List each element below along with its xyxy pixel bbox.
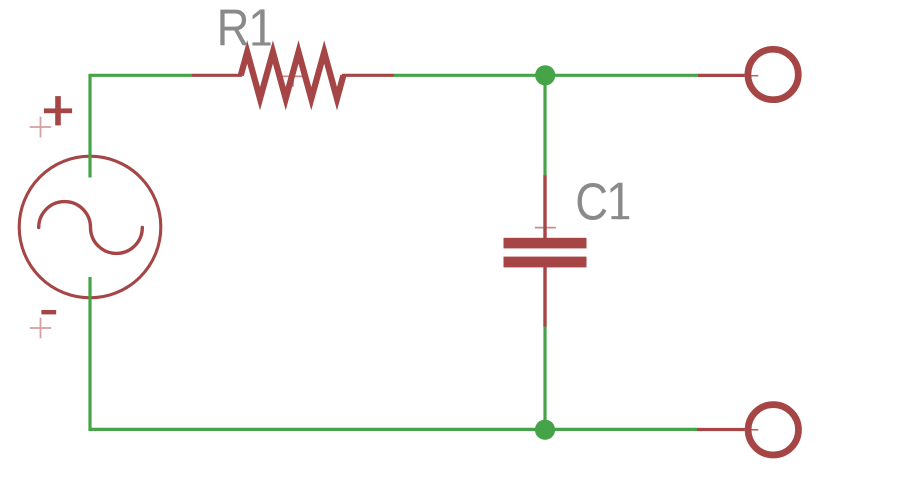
wire: bottom rail from source to terminal <box>90 277 697 429</box>
wire: top-left from source to corner <box>90 75 192 177</box>
svg-text:C: C <box>575 172 608 230</box>
wire: capacitor down to bottom junction <box>543 327 546 430</box>
resistor R1 zigzag body <box>241 52 344 99</box>
top terminal pad circle <box>748 49 798 99</box>
resistor R1 left pin <box>192 74 242 77</box>
thin pin stub inside bottom terminal <box>744 429 758 431</box>
origin cross of resistor R1 <box>283 66 304 87</box>
minus label of source V1 <box>41 310 56 314</box>
junction dot at top node <box>535 65 555 85</box>
plus label of source V1 <box>44 96 72 125</box>
label R1 <box>217 0 271 57</box>
origin cross of source V1 (bottom pin) <box>30 318 51 339</box>
capacitor C1 top plate <box>504 238 587 249</box>
label C1 <box>575 172 629 230</box>
junction dot at bottom node <box>535 420 555 440</box>
pin line of top terminal JP1 <box>698 74 746 77</box>
AC source V1 sine wave <box>39 202 143 254</box>
wire: resistor to junction to terminal <box>394 74 698 77</box>
capacitor C1 bottom pin <box>543 267 546 328</box>
pin line of bottom terminal JP2 <box>697 428 746 431</box>
origin cross of source V1 (top pin) <box>30 117 51 138</box>
AC source V1 circle <box>19 156 161 298</box>
capacitor C1 bottom plate <box>504 257 587 268</box>
capacitor C1 top pin <box>543 175 546 239</box>
bottom terminal pad circle <box>748 405 798 455</box>
resistor R1 right pin <box>342 74 394 77</box>
thin pin stub inside top terminal <box>744 75 758 77</box>
svg-text:R: R <box>217 0 250 57</box>
wire: junction down to capacitor <box>543 75 546 175</box>
origin cross of capacitor C1 <box>535 217 556 238</box>
